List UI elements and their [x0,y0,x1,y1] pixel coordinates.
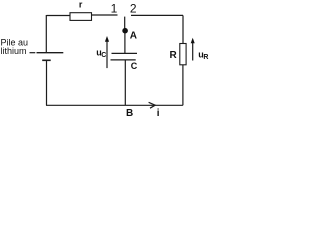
capacitor C top plate [112,52,138,54]
wire contact 2 to top-right corner [131,14,183,16]
wire left rail lower (battery down to bottom rail) [46,61,48,106]
capacitor C bottom plate [111,59,136,61]
arrow uC shaft [106,41,108,68]
wire bottom rail [46,104,183,106]
svg-text:C: C [101,52,106,59]
svg-text:B: B [126,108,133,119]
wire resistor r to contact 1 [92,14,118,16]
battery short plate (negative) [42,59,51,61]
arrow uC head [105,36,109,42]
svg-text:2: 2 [130,2,137,16]
arrow uR shaft [192,43,194,61]
svg-text:R: R [203,54,208,61]
wire node A down to capacitor [124,33,126,53]
svg-text:1: 1 [111,2,118,16]
svg-text:R: R [170,50,178,61]
svg-text:lithium: lithium [1,46,27,56]
wire top rail left (corner to resistor r) [47,15,71,17]
svg-text:C: C [131,61,138,71]
battery long plate (positive) [37,52,64,54]
resistor R [180,44,186,65]
svg-text:r: r [79,0,83,9]
wire right rail lower (resistor R to bottom rail) [182,65,184,106]
resistor r [70,13,92,21]
switch blade from node A [124,17,126,29]
svg-text:i: i [157,108,160,119]
wire capacitor down to bottom rail [124,60,126,105]
battery leader dash [30,52,36,54]
node A junction dot [122,28,128,34]
svg-text:A: A [130,30,137,41]
arrow uR head [191,38,195,43]
current arrow i head (open) [149,102,156,108]
wire right rail upper (corner down to resistor R) [182,15,184,43]
wire left rail upper (corner down to battery) [45,15,47,52]
